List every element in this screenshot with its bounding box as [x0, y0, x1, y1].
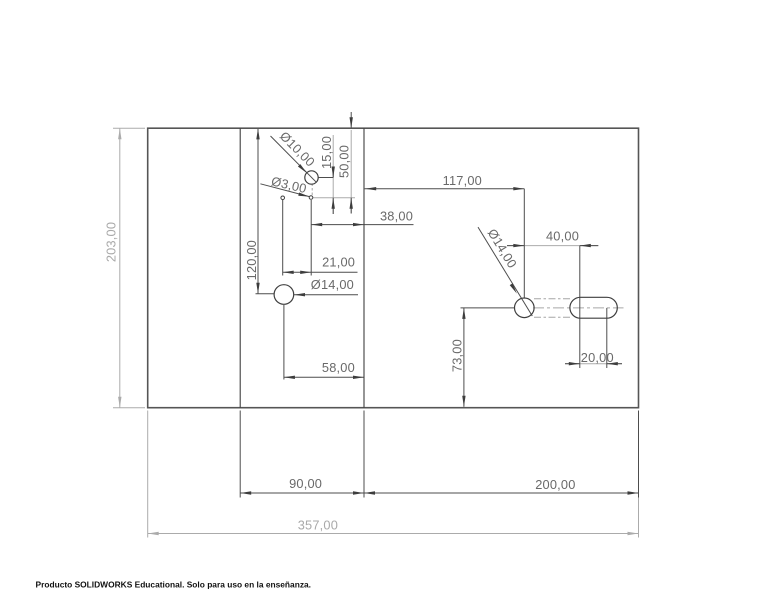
svg-text:73,00: 73,00: [450, 339, 465, 372]
svg-text:203,00: 203,00: [104, 222, 119, 262]
svg-text:15,00: 15,00: [319, 136, 334, 169]
svg-text:58,00: 58,00: [322, 360, 355, 375]
svg-text:40,00: 40,00: [546, 229, 579, 244]
svg-text:Ø3,00: Ø3,00: [270, 173, 308, 196]
svg-text:90,00: 90,00: [289, 476, 322, 491]
svg-text:120,00: 120,00: [244, 240, 259, 280]
svg-text:Ø14,00: Ø14,00: [311, 277, 354, 292]
svg-text:200,00: 200,00: [535, 477, 575, 492]
svg-text:38,00: 38,00: [380, 209, 413, 224]
svg-text:50,00: 50,00: [337, 145, 352, 178]
svg-text:357,00: 357,00: [298, 518, 338, 533]
svg-text:Ø14,00: Ø14,00: [485, 226, 520, 271]
svg-text:20,00: 20,00: [581, 350, 614, 365]
svg-text:21,00: 21,00: [322, 255, 355, 270]
svg-text:117,00: 117,00: [443, 173, 482, 188]
svg-text:Producto SOLIDWORKS Educationa: Producto SOLIDWORKS Educational. Solo pa…: [36, 580, 312, 590]
